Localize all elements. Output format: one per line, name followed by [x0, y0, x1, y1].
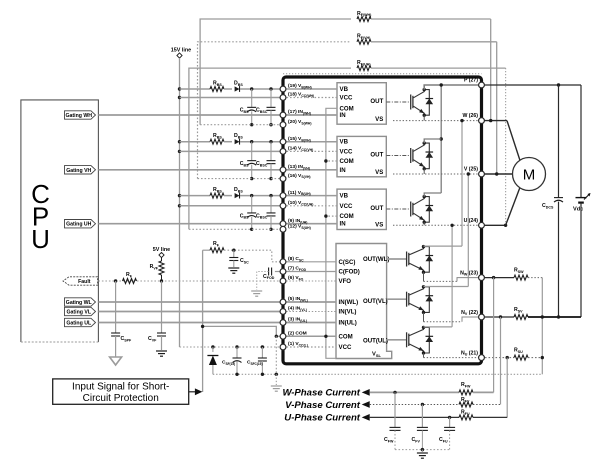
svg-text:Gating VH: Gating VH [66, 168, 91, 174]
svg-text:Gating VL: Gating VL [67, 310, 92, 316]
svg-text:U (24): U (24) [464, 218, 479, 224]
svg-text:OUT: OUT [370, 152, 383, 159]
svg-text:VSL: VSL [372, 352, 382, 358]
svg-text:OUT(WL): OUT(WL) [363, 256, 389, 263]
svg-text:Vdc: Vdc [573, 207, 583, 213]
svg-text:COM: COM [339, 333, 353, 340]
svg-text:OUT(UL): OUT(UL) [363, 338, 388, 345]
svg-text:IN: IN [340, 167, 346, 174]
svg-text:VB: VB [340, 193, 349, 200]
svg-text:W-Phase Current: W-Phase Current [283, 388, 361, 399]
svg-text:OUT: OUT [370, 205, 383, 212]
svg-text:OUT: OUT [370, 98, 383, 105]
svg-text:V (25): V (25) [464, 167, 478, 173]
svg-text:VS: VS [375, 169, 383, 176]
svg-text:W (26): W (26) [462, 113, 478, 119]
svg-text:VFO: VFO [339, 278, 352, 285]
svg-text:IN(WL): IN(WL) [339, 299, 359, 306]
svg-text:VS: VS [375, 116, 383, 123]
svg-text:P (27): P (27) [464, 78, 478, 84]
svg-text:IN: IN [340, 112, 346, 119]
svg-text:Gating WH: Gating WH [65, 113, 92, 119]
svg-text:15V line: 15V line [171, 48, 191, 54]
svg-text:C(FOD): C(FOD) [339, 269, 360, 276]
svg-text:VB: VB [340, 139, 349, 146]
svg-text:Input Signal for Short-: Input Signal for Short- [72, 381, 169, 392]
svg-text:OUT(VL): OUT(VL) [363, 298, 388, 305]
svg-text:V-Phase Current: V-Phase Current [285, 400, 361, 411]
svg-text:U-Phase Current: U-Phase Current [284, 413, 361, 424]
svg-text:IN(VL): IN(VL) [339, 309, 357, 316]
svg-text:VCC: VCC [340, 95, 353, 102]
svg-text:IN: IN [340, 221, 346, 228]
svg-text:IN(UL): IN(UL) [339, 320, 357, 327]
svg-text:NW (23): NW (23) [460, 270, 478, 276]
svg-text:COM: COM [340, 158, 354, 165]
svg-text:C(SC): C(SC) [339, 259, 356, 266]
svg-text:VCC: VCC [340, 148, 353, 155]
svg-text:VB: VB [340, 86, 349, 93]
svg-text:M: M [523, 167, 536, 184]
svg-text:Fault: Fault [78, 279, 91, 285]
svg-text:VCC: VCC [339, 344, 352, 351]
svg-text:COM: COM [340, 213, 354, 220]
svg-text:(2) COM: (2) COM [288, 331, 307, 337]
svg-text:VCC: VCC [340, 203, 353, 210]
svg-text:Gating UH: Gating UH [66, 222, 92, 228]
svg-text:NU (21): NU (21) [461, 350, 478, 356]
svg-text:Gating UL: Gating UL [66, 321, 92, 327]
svg-text:VS: VS [375, 222, 383, 229]
svg-text:Gating WL: Gating WL [66, 300, 93, 306]
svg-text:U: U [31, 224, 50, 254]
svg-text:Circuit Protection: Circuit Protection [83, 393, 159, 404]
svg-text:NV (22): NV (22) [461, 310, 478, 316]
